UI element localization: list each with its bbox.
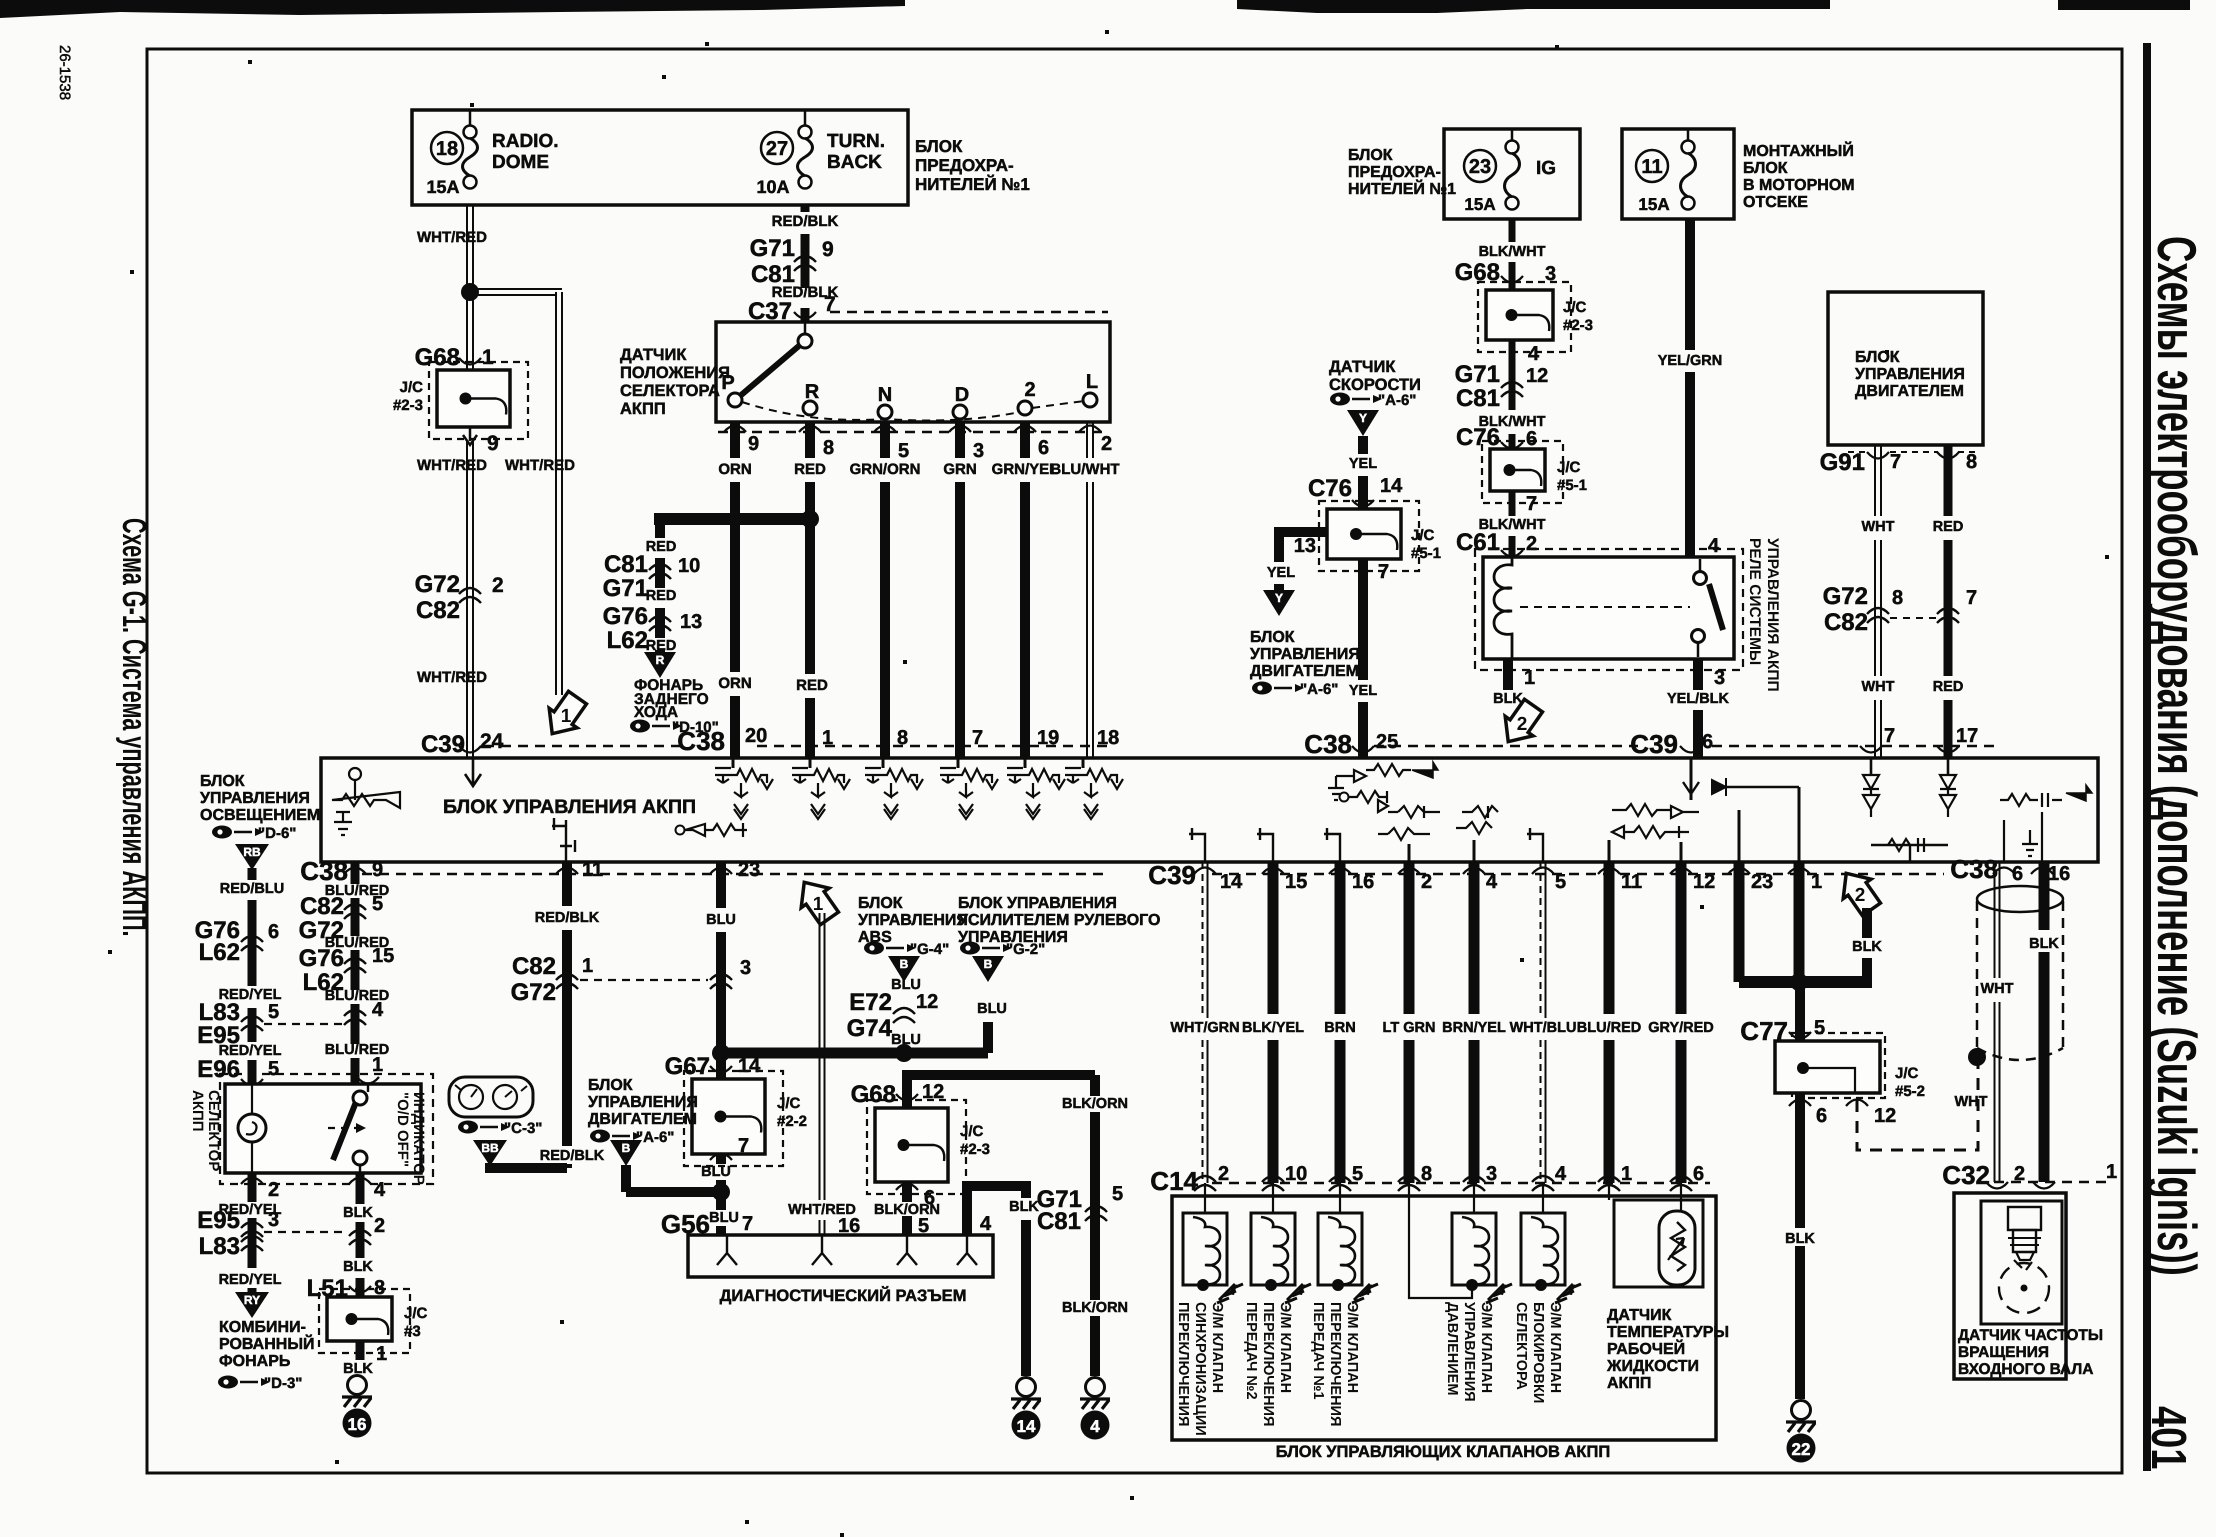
svg-text:E72: E72: [849, 989, 892, 1016]
svg-text:9: 9: [748, 433, 759, 455]
svg-text:#3: #3: [404, 1323, 421, 1340]
engine control unit box (БЛОК УПРАВЛЕНИЯ ДВИГАТЕЛЕМ): [1828, 292, 1983, 445]
svg-text:BLU: BLU: [709, 1210, 739, 1226]
svg-text:ВРАЩЕНИЯ: ВРАЩЕНИЯ: [1958, 1344, 2049, 1361]
svg-text:18: 18: [1097, 727, 1119, 749]
svg-text:G72: G72: [511, 979, 556, 1006]
dashed connector row C39/C38 TCM top left: [484, 745, 686, 748]
svg-text:RED/YEL: RED/YEL: [219, 1272, 282, 1288]
svg-text:C39: C39: [1148, 860, 1196, 890]
contact R: [803, 401, 817, 415]
svg-text:DOME: DOME: [492, 152, 549, 173]
svg-text:СЕЛЕКТОРА: СЕЛЕКТОРА: [1513, 1302, 1529, 1390]
wire BLK bar to C77: [1795, 982, 1805, 1041]
svg-text:4: 4: [374, 1179, 386, 1201]
svg-text:БЛОК: БЛОК: [588, 1077, 633, 1094]
junction dot BLU bus mid: [895, 1044, 913, 1062]
eye ref D-3: [218, 1376, 238, 1389]
svg-text:6: 6: [1526, 428, 1537, 450]
svg-text:B: B: [622, 1141, 631, 1155]
TCM internal protection cluster 1: [732, 758, 735, 768]
svg-text:7: 7: [1966, 587, 1977, 609]
wire BLU/RED C38-9 down: [351, 862, 360, 884]
svg-text:ПЕРЕДАЧ №2: ПЕРЕДАЧ №2: [1243, 1302, 1259, 1400]
dashed link L83-E95 to right column: [264, 1023, 348, 1025]
junction box J/C #2-2 (G67): [684, 1071, 783, 1166]
svg-text:ТЕМПЕРАТУРЫ: ТЕМПЕРАТУРЫ: [1607, 1324, 1729, 1341]
TCM internal input symbols left: [349, 768, 361, 780]
svg-text:C14: C14: [1150, 1166, 1198, 1196]
selector pin 5 wire GRN/ORN: [874, 426, 896, 433]
svg-text:C38: C38: [677, 726, 725, 756]
svg-text:20: 20: [745, 725, 767, 747]
TCM internal resistor rows above pins 11 12: [1612, 804, 1699, 818]
svg-text:13: 13: [1294, 535, 1316, 557]
contact L: [1083, 393, 1097, 407]
svg-text:BRN: BRN: [1324, 1020, 1355, 1036]
svg-text:10A: 10A: [756, 177, 789, 197]
wire GRY/RED C39 to valve block: [1676, 862, 1687, 1014]
fuse 18 RADIO DOME 15A: [431, 132, 463, 164]
svg-text:9: 9: [822, 238, 834, 261]
svg-text:3: 3: [268, 1209, 279, 1231]
svg-text:3: 3: [1714, 667, 1725, 689]
O/D switch dashed arrow: [328, 1127, 366, 1129]
svg-text:РЕЛЕ СИСТЕМЫ: РЕЛЕ СИСТЕМЫ: [1746, 538, 1763, 665]
junction box J/C #2-3 (G68): [429, 362, 528, 439]
svg-text:8: 8: [1421, 1163, 1432, 1185]
svg-text:J/C: J/C: [777, 1095, 801, 1112]
eye ref G-2: [960, 942, 980, 955]
relay АКПП control system box: [1483, 557, 1734, 659]
svg-text:17: 17: [1956, 725, 1978, 747]
svg-text:25: 25: [1376, 731, 1398, 753]
fuse box МОНТАЖНЫЙ БЛОК В МОТОРНОМ ОТСЕКЕ (fuse 11): [1622, 129, 1734, 219]
wire WHT/RED junction to J/C G68: [466, 292, 468, 370]
svg-text:2: 2: [1855, 885, 1866, 906]
svg-text:4: 4: [980, 1213, 992, 1235]
svg-text:БЛОК: БЛОК: [1348, 147, 1393, 164]
wire WHT thin C38-6 to C32-2: [1994, 862, 1996, 978]
svg-text:НИТЕЛЕЙ №1: НИТЕЛЕЙ №1: [915, 174, 1030, 194]
label СЕЛЕКТОР АКПП vertical: [189, 1090, 222, 1171]
relay box dashed outline: [1475, 549, 1743, 670]
selector pin 6 wire GRN/YEL: [1014, 426, 1036, 433]
svg-text:J/C: J/C: [960, 1123, 984, 1140]
svg-text:WHT/RED: WHT/RED: [417, 457, 487, 474]
svg-text:WHT/RED: WHT/RED: [505, 457, 575, 474]
svg-text:14: 14: [1017, 1417, 1036, 1436]
selector pin 2 wire BLU/WHT: [1079, 426, 1101, 433]
svg-text:Y: Y: [1359, 411, 1367, 425]
svg-text:G76: G76: [299, 945, 344, 972]
wire BLK arrow2 to bar: [1862, 908, 1872, 938]
svg-text:L62: L62: [607, 627, 648, 654]
instrument cluster icon: [449, 1077, 533, 1117]
svg-text:БЛОК: БЛОК: [1250, 629, 1295, 646]
contact P: [728, 393, 742, 407]
svg-text:J/C: J/C: [400, 379, 424, 396]
svg-text:6: 6: [268, 921, 279, 943]
svg-text:3: 3: [1486, 1163, 1497, 1185]
svg-text:10: 10: [678, 555, 700, 577]
svg-text:2: 2: [268, 1179, 279, 1201]
BLU bus bar: [721, 1048, 988, 1059]
svg-text:ПЕРЕКЛЮЧЕНИЯ: ПЕРЕКЛЮЧЕНИЯ: [1175, 1302, 1191, 1426]
wire WHT/RED thin to diag connector: [819, 913, 821, 1200]
svg-text:15: 15: [372, 945, 394, 967]
bar to B arrow engine ECU: [626, 1187, 721, 1197]
relay switch: [1694, 572, 1707, 585]
shield cylinder dashed bottom: [1977, 1048, 2063, 1060]
svg-text:МОНТАЖНЫЙ: МОНТАЖНЫЙ: [1743, 141, 1854, 160]
svg-text:2: 2: [1421, 871, 1432, 893]
svg-text:УПРАВЛЕНИЯ: УПРАВЛЕНИЯ: [588, 1094, 698, 1111]
svg-text:#5-1: #5-1: [1411, 545, 1441, 562]
svg-text:BLU/WHT: BLU/WHT: [1050, 461, 1119, 478]
arrow B to engine ECU: [610, 1140, 642, 1166]
arrow B from power steering: [972, 956, 1004, 982]
svg-text:БЛОК: БЛОК: [200, 773, 245, 790]
svg-text:ЖИДКОСТИ: ЖИДКОСТИ: [1606, 1358, 1699, 1375]
wire WHT G91-7 down: [1874, 445, 1876, 516]
arrow Y to engine ECU: [1274, 584, 1284, 592]
svg-text:ПЕРЕКЛЮЧЕНИЯ: ПЕРЕКЛЮЧЕНИЯ: [1260, 1302, 1276, 1426]
svg-text:1: 1: [482, 346, 494, 369]
svg-text:11: 11: [1621, 871, 1642, 893]
svg-text:1: 1: [1524, 667, 1535, 689]
svg-text:YEL: YEL: [1349, 683, 1377, 699]
svg-text:15A: 15A: [1464, 195, 1495, 214]
svg-text:ПЕРЕДАЧ №1: ПЕРЕДАЧ №1: [1310, 1302, 1326, 1400]
junction bar BLK: [1739, 976, 1872, 988]
svg-text:БЛОК: БЛОК: [1743, 160, 1788, 177]
svg-text:22: 22: [1792, 1440, 1811, 1459]
svg-text:1: 1: [1811, 871, 1822, 893]
svg-text:BLK/YEL: BLK/YEL: [1242, 1020, 1304, 1036]
svg-text:12: 12: [1874, 1105, 1896, 1127]
ATF temperature sensor (ДАТЧИК ТЕМПЕРАТУРЫ РАБОЧЕЙ ЖИДКОСТИ АКПП): [1608, 1183, 1610, 1200]
svg-text:WHT/RED: WHT/RED: [417, 229, 487, 246]
wire YEL/BLK relay to C39-6: [1693, 659, 1703, 690]
TCM internal zener cluster pins 7 17: [1870, 758, 1873, 775]
lamp symbol in selector: [251, 1084, 253, 1114]
ground 14: [1017, 1378, 1036, 1397]
O/D switch blade: [333, 1102, 356, 1160]
TCM internal diode link C39-6 to pin1 node: [1690, 758, 1693, 800]
label ИНДИКАТОР O/D OFF vertical: [394, 1092, 427, 1185]
eye ref D-6: [212, 826, 232, 839]
svg-text:БЛОКИРОВКИ: БЛОКИРОВКИ: [1530, 1302, 1546, 1403]
svg-text:"O/D OFF": "O/D OFF": [394, 1092, 411, 1167]
fuse 11 15A: [1636, 150, 1668, 182]
wire YEL to C38-25: [1358, 559, 1368, 680]
svg-text:16: 16: [838, 1215, 860, 1237]
svg-text:WHT/GRN: WHT/GRN: [1170, 1020, 1239, 1036]
eye ref A-6 mid: [590, 1130, 610, 1143]
svg-text:YEL/GRN: YEL/GRN: [1658, 353, 1722, 369]
svg-text:BLK: BLK: [1785, 1231, 1815, 1247]
svg-text:C81: C81: [604, 551, 648, 578]
svg-text:15A: 15A: [1638, 195, 1669, 214]
svg-text:"G-2": "G-2": [1006, 941, 1045, 958]
junction dot BLU bus left: [712, 1044, 730, 1062]
arrow 2 from sheet (BLK): [1832, 864, 1885, 920]
svg-text:7: 7: [1378, 561, 1389, 583]
svg-text:C82: C82: [300, 893, 344, 920]
wire LT GRN C39 to valve block: [1404, 862, 1415, 1014]
svg-text:GRN/YEL: GRN/YEL: [992, 461, 1059, 478]
svg-text:14: 14: [1380, 475, 1403, 497]
diag connector pin forks: [717, 1235, 737, 1265]
svg-text:G67: G67: [665, 1053, 710, 1080]
junction box J/C #5-1 (C76 right): [1482, 441, 1563, 503]
svg-text:15A: 15A: [426, 177, 459, 197]
svg-text:СЕЛЕКТОР: СЕЛЕКТОР: [205, 1090, 222, 1171]
svg-text:RED: RED: [646, 539, 677, 555]
svg-text:R: R: [656, 653, 665, 667]
svg-text:C38: C38: [1304, 729, 1352, 759]
TCM internal bracket mid: [552, 818, 575, 862]
svg-text:1: 1: [376, 1343, 387, 1365]
wire stub fuse27 top: [804, 110, 807, 126]
svg-text:16: 16: [1352, 871, 1374, 893]
wire stub fuse18 top: [469, 110, 472, 126]
arrow BB to instrument cluster: [473, 1140, 507, 1166]
svg-text:23: 23: [1751, 871, 1773, 893]
svg-text:RB: RB: [243, 845, 261, 859]
svg-text:7: 7: [738, 1135, 749, 1157]
svg-text:J/C: J/C: [1563, 299, 1587, 316]
wire YEL speed sensor to J/C C76: [1358, 436, 1368, 454]
arrow 1 from sheet (WHT/RED): [790, 873, 843, 929]
svg-text:23: 23: [738, 859, 760, 881]
wire WHT/RED J/C G68 to C39-24: [466, 441, 468, 758]
svg-text:C38: C38: [300, 856, 348, 886]
svg-text:26-1538: 26-1538: [56, 45, 73, 100]
svg-text:RED/BLU: RED/BLU: [220, 881, 284, 897]
svg-text:J/C: J/C: [404, 1305, 428, 1322]
TCM internal protection cluster 5: [1024, 758, 1027, 768]
svg-text:В МОТОРНОМ: В МОТОРНОМ: [1743, 177, 1855, 194]
arrow Y from speed sensor: [1347, 410, 1379, 436]
svg-text:BACK: BACK: [827, 152, 882, 173]
arrow R to reverse lamp: [655, 650, 665, 654]
wire C39-23 down to junction bar: [1734, 862, 1745, 982]
svg-text:13: 13: [680, 611, 702, 633]
svg-text:B: B: [900, 957, 909, 971]
relay coil: [1494, 557, 1512, 659]
svg-text:L62: L62: [199, 939, 240, 966]
eye ref D-10: [630, 720, 650, 733]
arrow 1 to sheet (WHT/RED branch): [538, 688, 591, 744]
svg-text:"A-6": "A-6": [1378, 392, 1416, 409]
svg-text:BB: BB: [481, 1141, 499, 1155]
svg-text:C38: C38: [1950, 854, 1998, 884]
svg-text:ДИАГНОСТИЧЕСКИЙ РАЗЪЕМ: ДИАГНОСТИЧЕСКИЙ РАЗЪЕМ: [720, 1286, 967, 1305]
junction dot shield: [1968, 1048, 1986, 1066]
selector unit dashed outline: [220, 1074, 433, 1184]
eye ref G-4: [864, 942, 884, 955]
svg-text:2: 2: [1101, 433, 1112, 455]
selector position switch box (ДАТЧИК ПОЛОЖЕНИЯ СЕЛЕКТОРА АКПП): [716, 322, 1110, 422]
svg-text:КОМБИНИ-: КОМБИНИ-: [219, 1319, 306, 1336]
dashed link E95-L83 to BLK column: [264, 1231, 348, 1233]
svg-text:ИНДИКАТОР: ИНДИКАТОР: [410, 1092, 427, 1185]
wire BLK/ORN G68 to diag pin 5: [902, 1182, 912, 1202]
svg-text:1: 1: [561, 706, 572, 727]
svg-text:J/C: J/C: [1411, 527, 1435, 544]
svg-text:СЕЛЕКТОРА: СЕЛЕКТОРА: [620, 382, 720, 400]
svg-text:G91: G91: [1820, 449, 1865, 476]
junction box J/C #2-3 (G68 right): [1478, 282, 1571, 352]
dashed link C82-G72 to BLU column: [580, 979, 708, 981]
svg-text:G56: G56: [661, 1209, 710, 1239]
svg-text:Э/М КЛАПАН: Э/М КЛАПАН: [1277, 1302, 1293, 1393]
svg-text:6: 6: [1816, 1105, 1827, 1127]
svg-text:BLK/WHT: BLK/WHT: [1479, 244, 1546, 260]
svg-text:27: 27: [766, 138, 788, 160]
svg-text:BLK: BLK: [1852, 939, 1882, 955]
contact N: [878, 405, 892, 419]
svg-text:BLK: BLK: [2029, 936, 2059, 952]
solenoid Э/М КЛАПАН БЛОКИРОВКИ СЕЛЕКТОРА: [1542, 1183, 1544, 1213]
junction box J/C #3 (L51): [319, 1289, 410, 1353]
page number 401: [2140, 1406, 2195, 1469]
svg-text:C39: C39: [421, 731, 465, 758]
wire BLK C38-16 to C32-1: [2039, 862, 2050, 930]
svg-text:P: P: [721, 372, 734, 394]
svg-text:10: 10: [1285, 1163, 1307, 1185]
svg-text:8: 8: [1892, 587, 1903, 609]
relay vertical label (РЕЛЕ СИСТЕМЫ УПРАВЛЕНИЯ АКПП): [1746, 538, 1781, 692]
svg-text:Э/М КЛАПАН: Э/М КЛАПАН: [1344, 1302, 1360, 1393]
svg-text:5: 5: [1814, 1017, 1825, 1039]
svg-text:ОСВЕЩЕНИЕМ: ОСВЕЩЕНИЕМ: [200, 807, 320, 824]
svg-text:C32: C32: [1942, 1160, 1990, 1190]
input shaft speed sensor box: [1954, 1193, 2066, 1379]
wire WHT/BLU C39 to valve block: [1540, 862, 1542, 1018]
svg-text:"A-6": "A-6": [636, 1129, 674, 1146]
svg-text:ОТСЕКЕ: ОТСЕКЕ: [1743, 194, 1808, 211]
svg-text:BLK: BLK: [1009, 1199, 1039, 1215]
wire YEL/GRN fuse 11 to relay: [1685, 219, 1695, 350]
svg-text:8: 8: [897, 727, 908, 749]
svg-text:G72: G72: [415, 571, 460, 598]
switch common contact: [798, 334, 812, 348]
svg-text:7: 7: [972, 727, 983, 749]
svg-text:4: 4: [1090, 1417, 1100, 1436]
svg-text:12: 12: [1693, 871, 1715, 893]
svg-text:СИНХРОНИЗАЦИИ: СИНХРОНИЗАЦИИ: [1192, 1302, 1208, 1436]
arrow RB from light control: [235, 844, 269, 870]
svg-text:E95: E95: [197, 1207, 240, 1234]
svg-text:4: 4: [372, 999, 384, 1021]
svg-text:16: 16: [348, 1415, 367, 1434]
svg-text:BLK: BLK: [343, 1259, 373, 1275]
svg-text:L: L: [1086, 371, 1098, 393]
dashed connector row TCM top right: [1374, 745, 1638, 748]
svg-text:C81: C81: [1456, 385, 1500, 412]
svg-text:1: 1: [1621, 1163, 1632, 1185]
svg-text:12: 12: [1526, 365, 1548, 387]
wire BLK/ORN column right: [1090, 1075, 1100, 1096]
wire RED down to reverse lamp arrow: [655, 513, 665, 538]
svg-text:8: 8: [823, 437, 834, 459]
svg-text:G71: G71: [1455, 361, 1500, 388]
dashed connector row C38 TCM bottom left: [362, 873, 1108, 876]
svg-text:1: 1: [372, 1054, 383, 1076]
wire BLU C38-23 down: [716, 862, 726, 908]
svg-text:#2-3: #2-3: [960, 1141, 990, 1158]
svg-text:1: 1: [582, 955, 593, 977]
eye ref A-6 engine ECU: [1252, 682, 1272, 695]
svg-text:RED/BLK: RED/BLK: [772, 213, 839, 230]
valve block box (БЛОК УПРАВЛЯЮЩИХ КЛАПАНОВ АКПП): [1172, 1196, 1716, 1440]
svg-text:WHT/RED: WHT/RED: [417, 669, 487, 686]
svg-text:БЛОК: БЛОК: [1855, 349, 1900, 366]
svg-text:G68: G68: [415, 344, 460, 371]
TCM internal protection cluster 4: [957, 758, 960, 768]
svg-text:ВХОДНОГО ВАЛА: ВХОДНОГО ВАЛА: [1958, 1361, 2094, 1378]
scan bar top: [0, 0, 905, 18]
wire RED/BLU down: [248, 868, 257, 880]
ground 4: [1086, 1378, 1105, 1397]
svg-text:БЛОК УПРАВЛЕНИЯ АКПП: БЛОК УПРАВЛЕНИЯ АКПП: [443, 796, 696, 818]
O/D switch contacts: [367, 1084, 369, 1092]
svg-text:Y: Y: [1275, 591, 1283, 605]
arrow RY to combination lamp: [248, 1288, 257, 1292]
arrow 2 to sheet: [1494, 696, 1547, 752]
svg-text:11: 11: [582, 859, 603, 881]
svg-text:4: 4: [1555, 1163, 1567, 1185]
dashed selector arc: [742, 401, 1085, 420]
svg-text:УСИЛИТЕЛЕМ РУЛЕВОГО: УСИЛИТЕЛЕМ РУЛЕВОГО: [958, 912, 1160, 929]
svg-text:7: 7: [1890, 451, 1901, 473]
svg-text:#5-1: #5-1: [1557, 477, 1587, 494]
svg-text:R: R: [805, 381, 820, 403]
svg-text:"G-4": "G-4": [910, 941, 949, 958]
svg-text:BLK/ORN: BLK/ORN: [874, 1202, 940, 1218]
wire WHT/RED from fuse 18 down to junction: [466, 205, 468, 292]
fuse 23 IG 15A: [1464, 150, 1496, 182]
solenoid Э/М КЛАПАН СИНХРОНИЗАЦИИ ПЕРЕКЛЮЧЕНИЯ: [1204, 1183, 1206, 1213]
svg-text:5: 5: [1555, 871, 1566, 893]
svg-text:14: 14: [738, 1055, 761, 1077]
wire RED G91-8 down: [1944, 445, 1953, 516]
svg-text:BLU: BLU: [891, 1032, 921, 1048]
wire BRN C39 to valve block: [1335, 862, 1346, 1014]
diagnostic connector box (ДИАГНОСТИЧЕСКИЙ РАЗЪЕМ): [688, 1235, 993, 1277]
svg-text:2: 2: [1517, 714, 1528, 735]
svg-text:RED/BLK: RED/BLK: [540, 1148, 605, 1164]
wire C39-1 down to junction bar: [1794, 862, 1805, 982]
svg-text:ДАТЧИК ЧАСТОТЫ: ДАТЧИК ЧАСТОТЫ: [1958, 1327, 2103, 1344]
svg-text:2: 2: [374, 1215, 385, 1237]
solenoid Э/М КЛАПАН ПЕРЕКЛЮЧЕНИЯ ПЕРЕДАЧ №2: [1272, 1183, 1274, 1213]
svg-text:YEL: YEL: [1349, 456, 1377, 472]
svg-text:C61: C61: [1456, 529, 1500, 556]
junction dot pin1 column: [1790, 973, 1808, 991]
svg-text:12: 12: [916, 991, 938, 1013]
selector pin 8 wire RED: [799, 426, 821, 433]
svg-text:G74: G74: [847, 1015, 893, 1042]
svg-text:ДАВЛЕНИЕМ: ДАВЛЕНИЕМ: [1444, 1302, 1460, 1395]
svg-text:WHT: WHT: [1861, 519, 1894, 535]
svg-text:11: 11: [1641, 156, 1662, 178]
svg-text:RED: RED: [1933, 519, 1964, 535]
svg-text:J/C: J/C: [1895, 1065, 1919, 1082]
